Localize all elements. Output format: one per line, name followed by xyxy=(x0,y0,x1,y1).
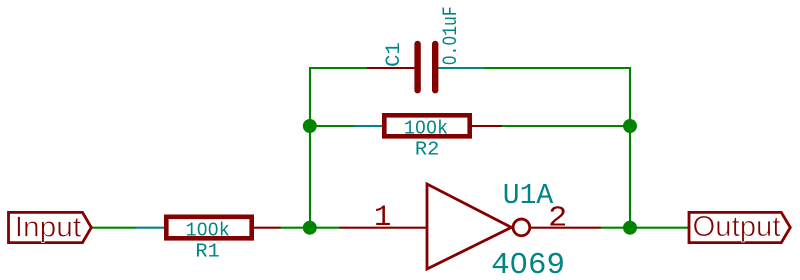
svg-text:1: 1 xyxy=(374,201,391,234)
resistor R2 pin 2 xyxy=(472,125,502,127)
wire: input flag to R1 xyxy=(92,227,137,229)
capacitor C1 right plate xyxy=(432,41,438,94)
resistor R1 pin 1 xyxy=(136,227,164,229)
op-amp U1A inverter triangle xyxy=(427,184,511,269)
resistor R2 pin 1 xyxy=(354,125,382,127)
resistor R1 body xyxy=(166,217,251,239)
wire: node A riser to top xyxy=(309,68,311,229)
op-amp U1A inversion bubble xyxy=(513,219,530,236)
capacitor C1 left plate xyxy=(414,41,420,94)
svg-text:Input: Input xyxy=(15,212,82,244)
svg-text:0.01uF: 0.01uF xyxy=(440,6,463,65)
output flag Output xyxy=(689,212,790,242)
input flag Input xyxy=(9,212,92,242)
wire: R1 to node A xyxy=(280,227,340,229)
svg-text:100k: 100k xyxy=(404,117,448,139)
wire: node B to R2 xyxy=(309,125,354,127)
capacitor C1 pin 1 xyxy=(367,67,414,69)
junction node B xyxy=(303,119,317,133)
wire: top right segment xyxy=(483,67,631,69)
svg-text:U1A: U1A xyxy=(503,179,554,212)
wire: U1A output to node E and output flag xyxy=(601,227,689,229)
svg-text:100k: 100k xyxy=(186,219,230,241)
op-amp U1A output pin 2 xyxy=(531,227,602,229)
junction node D xyxy=(623,119,637,133)
wire: right drop xyxy=(629,67,631,229)
svg-text:R1: R1 xyxy=(195,240,219,262)
svg-text:Output: Output xyxy=(693,211,781,243)
op-amp U1A inverter input pin 1 xyxy=(339,227,426,229)
svg-text:4069: 4069 xyxy=(491,249,565,280)
resistor R2 body xyxy=(384,115,469,136)
junction node E xyxy=(623,221,637,235)
wire: top left segment xyxy=(309,67,368,69)
resistor R1 pin 2 xyxy=(254,227,281,229)
svg-text:R2: R2 xyxy=(415,138,439,160)
junction node A xyxy=(303,221,317,235)
svg-text:C1: C1 xyxy=(383,42,406,67)
wire: R2 to node D xyxy=(502,125,631,127)
capacitor C1 pin 2 xyxy=(438,67,483,69)
